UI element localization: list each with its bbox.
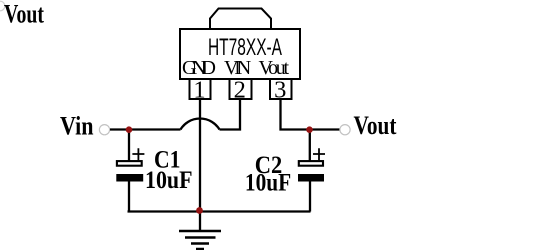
svg-text:10uF: 10uF <box>245 168 291 197</box>
pin box 3 <box>270 79 292 99</box>
capacitor C1 top plate <box>117 161 142 166</box>
terminal circle Vin <box>99 125 109 135</box>
junction dot Vout node <box>306 126 313 133</box>
pin box 1 <box>190 79 211 99</box>
wire hop arc over GND wire <box>181 119 220 130</box>
capacitor C1 bottom plate <box>116 174 143 182</box>
svg-text:Vout: Vout <box>4 0 44 29</box>
pin box 2 <box>230 79 252 99</box>
wire ground rail <box>128 210 311 212</box>
ground symbol <box>179 231 221 249</box>
wire C2 bottom lead <box>309 181 311 212</box>
regulator U1 tab <box>210 9 271 29</box>
junction dot ground node <box>196 207 203 214</box>
regulator U1 body HT78XX-A <box>180 29 300 79</box>
wire C1 top lead <box>128 130 130 162</box>
svg-text:Vin: Vin <box>60 110 94 140</box>
wire arc end to pin 2 <box>220 99 241 130</box>
wire Vin terminal to junction <box>110 128 181 130</box>
capacitor C1 polarity plus <box>132 148 144 160</box>
capacitor C2 top plate <box>299 161 323 166</box>
capacitor C2 polarity plus <box>313 148 325 160</box>
wire pin 1 to ground rail <box>199 99 201 212</box>
svg-text:10uF: 10uF <box>145 165 193 194</box>
wire C1 bottom lead <box>128 181 130 212</box>
wire ground stem <box>199 212 201 232</box>
junction dot Vin node <box>126 126 133 133</box>
svg-text:Vout: Vout <box>354 110 397 140</box>
capacitor C2 bottom plate <box>298 174 324 182</box>
wire pin 3 to Vout terminal <box>281 99 341 130</box>
wire C2 top lead <box>309 130 311 162</box>
stray terminal circle top-left corner <box>0 1 5 11</box>
terminal circle Vout <box>340 125 350 135</box>
